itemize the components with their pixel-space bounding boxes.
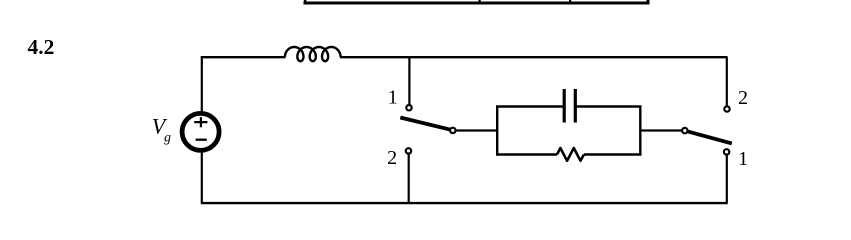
switch A blade <box>400 118 451 130</box>
RC box left side <box>496 107 498 155</box>
minus sign inside source <box>196 139 207 141</box>
table right vertical edge <box>647 0 650 5</box>
capacitor C left plate <box>563 89 566 123</box>
table column divider 2 <box>569 0 571 3</box>
wire: top rail left segment (source to inductor) <box>201 56 286 58</box>
table column divider 1 <box>479 0 481 3</box>
switch B terminal 1 contact <box>724 149 729 154</box>
RC box top rail right of capacitor <box>577 105 642 107</box>
voltage source Vg circle <box>182 113 219 150</box>
switch A common contact <box>450 128 455 133</box>
wire: left vertical lower (source bottom to bottom rail) <box>201 151 203 204</box>
resistor R zigzag <box>557 148 584 161</box>
svg-text:1: 1 <box>388 87 398 109</box>
wire: switch A common to RC box <box>456 129 497 131</box>
RC box right side <box>639 107 641 155</box>
wire: switch B terminal 1 down to bottom rail <box>726 155 728 203</box>
wire: top rail down to switch B terminal 2 <box>726 57 728 106</box>
wire: RC box to switch B common <box>640 129 682 131</box>
inductor L <box>285 47 341 61</box>
wire: switch A terminal 2 down to bottom rail <box>408 154 410 203</box>
table left vertical edge <box>304 0 307 5</box>
switch B blade <box>688 131 732 143</box>
svg-text:g: g <box>164 130 171 145</box>
wire: left vertical upper (source top to top rail) <box>201 56 203 114</box>
svg-text:1: 1 <box>738 148 748 170</box>
switch B terminal 2 contact <box>724 106 729 111</box>
wire: bottom rail <box>201 202 728 204</box>
svg-text:4.2: 4.2 <box>28 35 55 59</box>
svg-text:2: 2 <box>387 147 397 169</box>
wire: drop from top rail to switch A terminal 1 <box>408 57 410 105</box>
table bottom border (partial figure above, cropped) <box>304 2 650 5</box>
svg-text:2: 2 <box>738 87 748 109</box>
capacitor C right plate <box>574 89 577 123</box>
switch B common contact <box>682 128 687 133</box>
RC box bottom rail left of resistor <box>496 153 557 155</box>
wire: top rail right segment (inductor to right corner) <box>340 56 728 58</box>
plus sign inside source <box>194 117 207 127</box>
RC box top rail left of capacitor <box>496 105 563 107</box>
switch A terminal 1 contact <box>406 105 411 110</box>
switch A terminal 2 contact <box>406 148 411 153</box>
RC box bottom rail right of resistor <box>584 153 642 155</box>
